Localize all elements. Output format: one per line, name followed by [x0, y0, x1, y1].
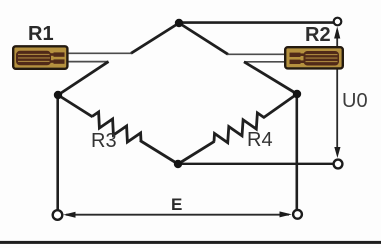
wire: top node to top-right terminal	[179, 21, 334, 24]
wire: thin lead to R2 upper tab	[228, 53, 288, 55]
E dimension line	[66, 214, 289, 216]
resistor R3 (zigzag, left node to bottom node)	[92, 112, 141, 142]
wire: top node down-right diagonal	[179, 23, 228, 54]
strain gauge R2	[285, 47, 343, 68]
resistor R4 (zigzag, bottom node to right node)	[214, 113, 264, 143]
terminal: U0 bottom	[334, 160, 343, 169]
terminal: E left	[53, 210, 63, 220]
wire: R3 to bottom node	[140, 141, 178, 165]
wire: thin lead from R1 upper tab	[66, 52, 132, 54]
E right arrowhead	[280, 211, 292, 217]
wire: bottom node to U0 bottom terminal	[178, 163, 334, 165]
label R1	[28, 23, 54, 46]
node: bottom (output -)	[174, 160, 182, 168]
U0 top arrowhead	[334, 27, 340, 39]
wire: thin lead from R1 lower tab	[66, 61, 109, 63]
wire: bottom node to R4	[178, 141, 215, 164]
label E	[171, 195, 182, 215]
label R2	[305, 24, 331, 47]
terminal: U0 top	[334, 18, 342, 26]
wire: thin lead to R2 lower tab	[244, 61, 288, 63]
wire: U0 dimension line (behind gauge R2)	[336, 30, 338, 153]
U0 bottom arrowhead	[334, 147, 340, 158]
wire: top node down-left diagonal	[131, 23, 179, 53]
wire: R4 to right node	[263, 94, 297, 118]
label R4	[247, 129, 273, 152]
wire: diagonal to left node	[58, 62, 109, 95]
node: right	[293, 90, 301, 98]
wire: left node down to E left terminal	[56, 95, 59, 210]
node: left	[54, 91, 62, 99]
wire: diagonal to right node	[244, 62, 297, 94]
label R3	[91, 130, 117, 153]
label U0	[342, 90, 368, 113]
wire: left node to R3	[58, 95, 93, 117]
terminal: E right	[293, 210, 302, 219]
E left arrowhead	[63, 212, 75, 218]
bottom frame rule	[0, 241, 381, 244]
strain gauge R1	[13, 46, 67, 69]
node: top (output +)	[175, 19, 183, 27]
wire: right node down to E right terminal	[295, 94, 298, 210]
